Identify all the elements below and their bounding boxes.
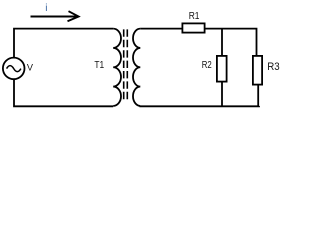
svg-text:R3: R3 bbox=[267, 61, 279, 73]
svg-text:R2: R2 bbox=[202, 60, 212, 71]
svg-text:i: i bbox=[45, 3, 47, 14]
svg-text:V: V bbox=[27, 62, 34, 72]
svg-text:R1: R1 bbox=[189, 11, 200, 22]
svg-text:T1: T1 bbox=[94, 60, 104, 71]
